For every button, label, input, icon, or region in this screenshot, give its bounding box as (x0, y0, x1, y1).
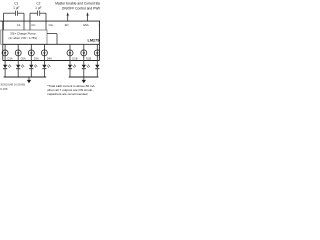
ground symbol A (27, 77, 31, 83)
wire C2 left terminal down into charge pump (29, 13, 31, 30)
current source D1A (2, 44, 13, 60)
IC U1 left edge (2, 21, 4, 60)
svg-text:C1-: C1- (17, 23, 21, 27)
LED 1B (68, 61, 76, 78)
figure id text (0, 84, 25, 91)
wire C1 left terminal down into charge pump (2, 13, 4, 30)
current source D3A (28, 44, 39, 60)
capacitor C1 label (13, 1, 19, 9)
svg-text:30061914B 1A/105KB: 30061914B 1A/105KB (0, 84, 25, 87)
current source D2A (15, 44, 26, 60)
LED 2A (16, 61, 24, 78)
wire C1 right terminal down into charge pump (23, 13, 25, 30)
svg-text:ENA: ENA (83, 23, 89, 27)
ground bus A (4, 76, 47, 78)
wire charge pump output drop (56, 34, 58, 45)
IC U1 right edge (98, 21, 100, 60)
IC U1 top edge (0, 20, 100, 22)
capacitor C2 label (35, 1, 41, 9)
svg-text:1 µF: 1 µF (35, 6, 41, 10)
svg-text:C2: C2 (36, 1, 40, 5)
svg-text:C2-: C2- (31, 23, 35, 27)
svg-text:C2+: C2+ (49, 23, 54, 27)
wire charge pump output (47, 33, 57, 35)
svg-text:D2A: D2A (21, 56, 26, 60)
svg-text:LM2794: LM2794 (88, 38, 101, 42)
svg-text:ON/OFF Control and PWM Brightn: ON/OFF Control and PWM Brightness (62, 7, 100, 11)
LED 4A (42, 61, 50, 78)
svg-text:D4A: D4A (47, 56, 52, 60)
current source D2B (81, 44, 92, 60)
svg-text:D3A: D3A (34, 56, 39, 60)
LED 2B (82, 61, 90, 78)
svg-text:Master Enable and Current Bala: Master Enable and Current Balance (55, 2, 100, 6)
arrow to ENA pin (86, 12, 88, 21)
LED 1A (3, 61, 11, 78)
svg-text:C1: C1 (14, 1, 18, 5)
svg-text:1 µF: 1 µF (13, 6, 19, 10)
LED 3B (95, 61, 101, 78)
svg-text:D1A: D1A (8, 56, 13, 60)
wire C2 right terminal down into charge pump (45, 13, 47, 30)
svg-text:D-05B: D-05B (0, 88, 7, 91)
svg-text:capacitors are recommended.: capacitors are recommended. (47, 92, 88, 96)
current source D4A (41, 44, 52, 60)
internal output bus (3, 43, 100, 45)
IC U1 bottom edge (3, 60, 100, 62)
note text (47, 84, 95, 96)
svg-text:D1B: D1B (72, 56, 77, 60)
svg-text:EN: EN (65, 23, 69, 27)
LED 3A (29, 61, 37, 78)
ground bus B (69, 76, 99, 78)
svg-text:(1× when V IN > 4.75V): (1× when V IN > 4.75V) (8, 36, 37, 40)
svg-text:V: V (99, 23, 100, 27)
arrow to EN pin (67, 12, 69, 21)
capacitor C2 (30, 11, 46, 16)
current source D3B (94, 44, 100, 60)
svg-text:D2B: D2B (86, 56, 91, 60)
capacitor C1 (3, 11, 24, 16)
charge pump block (1, 30, 47, 44)
ground symbol B (82, 77, 86, 83)
annotation Master Enable text (55, 2, 118, 11)
current source D1B (67, 44, 78, 60)
